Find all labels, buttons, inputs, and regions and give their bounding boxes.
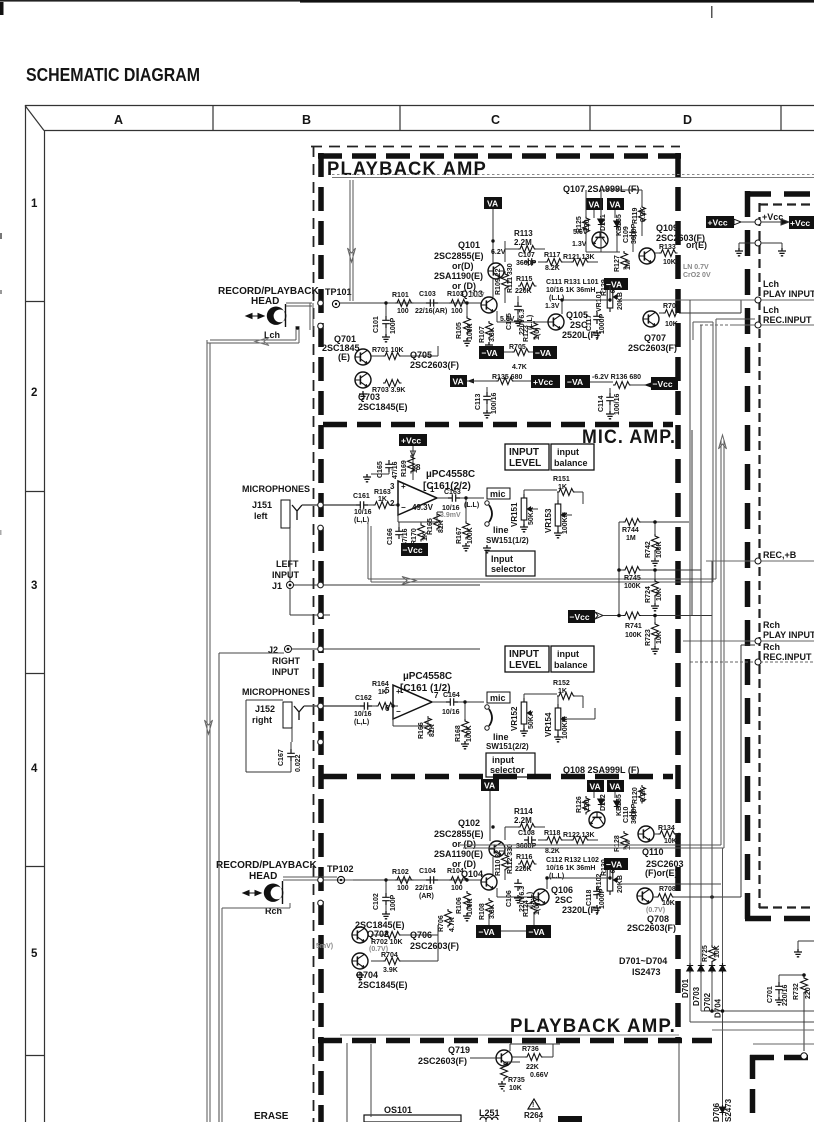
svg-text:mic: mic (490, 489, 506, 499)
-VA box bottom left (476, 925, 501, 938)
svg-text:10K: 10K (663, 259, 676, 266)
-VA box (Q108 bias) (604, 858, 628, 870)
-VA box (Q107 bias) (604, 278, 628, 290)
registration mark top-left (0, 2, 4, 15)
svg-text:R117: R117 (544, 252, 560, 259)
wires Q719 (470, 1044, 560, 1066)
arrow from -Vcc (595, 612, 603, 619)
svg-text:3.3K: 3.3K (489, 327, 496, 342)
svg-text:3: 3 (390, 482, 395, 491)
svg-text:3.9mV: 3.9mV (440, 512, 461, 519)
node Lch head wire crossing (318, 300, 324, 306)
svg-text:ERASE: ERASE (254, 1111, 289, 1122)
diode D704 (719, 963, 725, 973)
ruler row divider 2/3 (25, 491, 44, 493)
wire R701 row (371, 346, 438, 356)
svg-text:−Vcc: −Vcc (403, 545, 423, 555)
svg-text:R127: R127 (614, 255, 621, 272)
svg-text:R707: R707 (663, 303, 680, 310)
TP101 test point (332, 300, 339, 307)
registration tick top-right (711, 6, 713, 18)
PLAYBACK AMP dashed enclosure: bottom edge (318, 1038, 712, 1044)
svg-text:2: 2 (390, 499, 395, 508)
svg-text:VA: VA (589, 200, 600, 210)
svg-text:100: 100 (451, 308, 463, 315)
resistor R119 (639, 205, 646, 224)
svg-text:2SA1190(E): 2SA1190(E) (434, 849, 483, 859)
svg-text:R135 680: R135 680 (492, 374, 522, 381)
svg-text:10/16: 10/16 (442, 709, 460, 716)
wire Q708 output (653, 645, 755, 897)
svg-text:100KM: 100KM (562, 716, 569, 739)
svg-text:R736: R736 (522, 1046, 539, 1053)
svg-text:R167: R167 (456, 527, 463, 544)
ground small top right (794, 949, 802, 957)
svg-text:REC.INPUT: REC.INPUT (763, 652, 812, 662)
INPUT LEVEL box (505, 444, 549, 470)
arrow on output run (402, 577, 416, 585)
right inner dashed box: left edge (758, 203, 760, 908)
head Lch bias arrow (246, 314, 264, 319)
svg-text:S2473: S2473 (724, 1098, 733, 1122)
capacitor C118 (593, 887, 601, 899)
svg-text:8.2K: 8.2K (640, 787, 647, 802)
svg-text:LN 0.7V: LN 0.7V (683, 264, 709, 271)
svg-text:R166: R166 (418, 722, 425, 739)
svg-text:R151: R151 (553, 476, 570, 483)
svg-text:IS2473: IS2473 (632, 967, 661, 977)
transistor Q108 (589, 812, 605, 828)
svg-text:or(E): or(E) (686, 240, 707, 250)
ground under C114 (606, 411, 614, 419)
svg-text:-6.2V R136 680: -6.2V R136 680 (592, 374, 641, 381)
ruler row divider 4/5 (25, 866, 44, 868)
wire J152 to mic amp (292, 706, 330, 742)
arrow to VA (467, 379, 474, 384)
svg-text:INPUT: INPUT (509, 649, 539, 660)
wire Rch play input (683, 640, 814, 642)
svg-text:100/16: 100/16 (491, 392, 498, 414)
wire bottom connects (486, 1090, 540, 1122)
wire rows lower right (712, 1030, 814, 1044)
wire above bottom dashed (340, 1034, 679, 1036)
head Rch symbol (264, 884, 284, 902)
svg-text:line: line (493, 525, 509, 535)
svg-text:10K: 10K (656, 588, 663, 601)
arrow on incoming vertical (348, 248, 356, 262)
svg-text:KB265: KB265 (616, 794, 623, 816)
wires around VR152/VR154 (524, 694, 595, 719)
svg-text:J151: J151 (252, 500, 272, 510)
wire Q707 output (659, 300, 741, 313)
PLAYBACK AMP dashed enclosure: top edge (318, 153, 681, 159)
svg-text:4.7K: 4.7K (449, 917, 456, 932)
svg-text:Lch: Lch (763, 279, 779, 289)
switch SW151(1/2) contacts (485, 501, 489, 505)
svg-text:D703: D703 (692, 986, 701, 1006)
wire J1 row (294, 584, 480, 586)
diode D701 (687, 963, 693, 973)
svg-text:5.6V: 5.6V (500, 316, 515, 323)
-Vcc box (bias row) (651, 377, 678, 390)
ruler row divider 1/2 (25, 301, 44, 303)
capacitor C114 (606, 393, 614, 405)
svg-text:D: D (683, 113, 692, 127)
svg-text:220/16: 220/16 (782, 984, 789, 1006)
wire bias feed verticals (586, 190, 642, 252)
node mic1 gnd crossing (318, 525, 324, 531)
svg-text:−VA: −VA (479, 927, 495, 937)
svg-text:R704: R704 (381, 952, 398, 959)
J151 jack symbol (281, 500, 290, 528)
svg-text:−VA: −VA (482, 348, 498, 358)
svg-text:R134: R134 (658, 825, 675, 832)
svg-text:selector: selector (490, 765, 525, 775)
svg-text:20KB: 20KB (617, 292, 624, 310)
svg-text:C103: C103 (419, 291, 436, 298)
resistor R164 (376, 703, 395, 710)
svg-text:2SC2603(F): 2SC2603(F) (418, 1056, 467, 1066)
svg-text:R128: R128 (614, 835, 621, 852)
node Rch return crossing (318, 900, 324, 906)
capacitor C117 (593, 312, 601, 324)
-VA box bottom right (526, 925, 551, 938)
svg-text:1K: 1K (378, 496, 387, 503)
wire -VA to -Vcc (590, 382, 651, 385)
svg-text:SW151(1/2): SW151(1/2) (486, 536, 529, 545)
svg-text:8: 8 (416, 463, 421, 472)
svg-text:R735: R735 (508, 1077, 525, 1084)
resistor R152 (557, 693, 576, 700)
svg-text:input: input (492, 755, 514, 765)
svg-text:C161: C161 (353, 493, 370, 500)
svg-text:Q706: Q706 (410, 930, 432, 940)
VA supply box 3 (607, 198, 624, 210)
svg-text:R110 22: R110 22 (495, 850, 502, 876)
svg-text:C165: C165 (377, 461, 384, 478)
resistor R136 (613, 382, 632, 389)
svg-text:R732: R732 (793, 983, 800, 1000)
wire incoming double vertical (350, 180, 353, 301)
svg-text:−VA: −VA (606, 860, 622, 870)
wire Lch rec input (700, 324, 814, 326)
MIC AMP dashed enclosure: bottom edge (323, 774, 673, 780)
svg-text:R745: R745 (624, 575, 641, 582)
svg-text:TP102: TP102 (327, 864, 354, 874)
C167 capacitor (287, 749, 295, 761)
svg-text:82K: 82K (438, 520, 445, 533)
potentiometer VR102 (607, 865, 618, 895)
node Lch rec (755, 322, 761, 328)
svg-text:2SA1190(E): 2SA1190(E) (434, 271, 483, 281)
svg-text:100: 100 (397, 308, 409, 315)
svg-text:R741: R741 (625, 623, 642, 630)
svg-text:100P: 100P (390, 894, 397, 911)
bottom-right dashed box: top edge (750, 1055, 814, 1061)
-Vcc box mid right (568, 610, 595, 623)
svg-text:10/16: 10/16 (442, 505, 460, 512)
svg-text:100: 100 (451, 885, 463, 892)
svg-text:HEAD: HEAD (251, 296, 279, 307)
diode D702 (709, 963, 715, 973)
svg-text:R103: R103 (447, 291, 464, 298)
-Vcc box mic (401, 543, 428, 556)
resistor R118 (545, 837, 564, 844)
svg-text:8.2K: 8.2K (640, 207, 647, 222)
svg-text:INPUT: INPUT (272, 570, 300, 580)
svg-text:OS101: OS101 (384, 1105, 412, 1115)
svg-text:2SC2855(E): 2SC2855(E) (434, 829, 484, 839)
svg-text:3600P: 3600P (631, 223, 638, 244)
capacitor C102 (382, 893, 390, 905)
transistor Q704 (352, 953, 368, 969)
svg-text:Q719: Q719 (448, 1045, 470, 1055)
capacitor C113 (483, 392, 491, 404)
svg-text:3600P: 3600P (631, 803, 638, 824)
capacitor C161 (356, 501, 368, 509)
svg-text:1.3V: 1.3V (545, 303, 560, 310)
svg-text:VA: VA (590, 782, 601, 792)
+Vcc box right (789, 216, 814, 229)
svg-text:R116: R116 (516, 854, 532, 861)
svg-text:(L,L): (L,L) (354, 517, 369, 524)
bottom-right dashed box: left edge (750, 1055, 756, 1122)
resistor R126 (583, 796, 590, 815)
ruler column divider C/D (589, 105, 591, 130)
svg-text:49.3V: 49.3V (412, 503, 434, 512)
svg-text:R170: R170 (411, 528, 418, 545)
ground under R742 (651, 558, 659, 566)
VA supply box 2 (586, 198, 603, 210)
node Lch return crossing (318, 323, 324, 329)
svg-text:−: − (401, 503, 406, 512)
resistor R122 (571, 837, 590, 844)
svg-text:VR102: VR102 (596, 873, 603, 895)
arrow to -Vcc (644, 383, 651, 388)
svg-text:VR151: VR151 (510, 502, 519, 527)
svg-text:R120: R120 (632, 787, 639, 804)
ruler row divider 3/4 (25, 673, 44, 675)
resistor R114 (518, 824, 537, 831)
capacitor C106 electrolytic (514, 879, 522, 891)
capacitor C164 (446, 698, 458, 706)
ground under R724 (651, 603, 659, 611)
wire J1 stub down (290, 589, 330, 615)
node on bottom-right box edge (801, 1053, 807, 1059)
svg-text:mic: mic (490, 693, 506, 703)
svg-text:input: input (557, 649, 579, 659)
node J1 stub crossing (318, 612, 324, 618)
svg-text:100P: 100P (390, 317, 397, 334)
svg-text:R708: R708 (659, 886, 676, 893)
svg-text:D704: D704 (714, 998, 723, 1018)
wire mic2 input line (304, 705, 360, 707)
svg-text:2SC2603(F): 2SC2603(F) (628, 343, 677, 353)
+Vcc box (bias row) (531, 375, 560, 388)
svg-text:10K: 10K (714, 945, 721, 958)
node Rch rec (755, 659, 761, 665)
VA box b3 (607, 780, 624, 792)
wire Rch return (222, 903, 290, 1122)
svg-text:220: 220 (805, 987, 812, 999)
potentiometer VR153 (555, 500, 566, 530)
svg-text:Q105: Q105 (566, 310, 588, 320)
resistor R724 (652, 579, 659, 598)
svg-text:RECORD/PLAYBACK: RECORD/PLAYBACK (216, 860, 318, 871)
resistor R124 (531, 896, 538, 915)
svg-text:100/16: 100/16 (614, 393, 621, 415)
border ruler left inner line (44, 130, 46, 1122)
resistor R732 (801, 976, 808, 995)
capacitor C162 (360, 702, 372, 710)
svg-text:VA: VA (610, 200, 621, 210)
wire interstage row (505, 241, 598, 262)
right outer dashed box: top edge (745, 191, 814, 197)
svg-text:D102: D102 (600, 794, 607, 811)
resistor R725 (709, 945, 716, 964)
svg-text:(F)or(E): (F)or(E) (645, 868, 678, 878)
resistor R745 (623, 567, 642, 574)
svg-text:C106: C106 (506, 890, 513, 907)
potentiometer VR152 (521, 698, 532, 728)
svg-text:C102: C102 (373, 893, 380, 910)
svg-text:SCHEMATIC DIAGRAM: SCHEMATIC DIAGRAM (26, 64, 200, 85)
wire +Vcc to op-amp (411, 446, 416, 480)
resistor R742 (652, 534, 659, 553)
Rch output run double (460, 440, 724, 963)
wire main Rch signal row (353, 879, 482, 881)
wire VA to +Vcc (467, 380, 531, 382)
node mic1 crossing (318, 502, 324, 508)
svg-text:R102: R102 (392, 869, 409, 876)
ground under R107 (485, 342, 493, 350)
svg-text:R101: R101 (392, 292, 409, 299)
ground under C101 (382, 334, 390, 342)
head Lch symbol (267, 307, 287, 325)
svg-text:C701: C701 (767, 986, 774, 1003)
resistor R723 (652, 622, 659, 641)
svg-text:R169: R169 (401, 460, 408, 477)
svg-text:R152: R152 (553, 680, 570, 687)
wire to inverting input (368, 504, 398, 506)
svg-text:C: C (491, 113, 500, 127)
ground left of C165 (363, 474, 371, 482)
ground under R735 (498, 1081, 506, 1089)
edge pass-through nodes on dashed borders (318, 300, 324, 906)
svg-text:Input: Input (491, 554, 513, 564)
svg-text:C114: C114 (598, 396, 605, 412)
ground under C117 (593, 330, 601, 338)
wire R134 to edge (654, 833, 679, 835)
resistor R736 (525, 1054, 544, 1061)
svg-text:R119: R119 (632, 208, 639, 224)
bundle below diodes (690, 973, 814, 1122)
ground under VR151 (520, 524, 528, 532)
svg-text:(L,L): (L,L) (354, 719, 369, 726)
svg-text:C109: C109 (623, 226, 630, 243)
svg-text:R725: R725 (702, 945, 709, 962)
svg-text:INPUT: INPUT (272, 667, 300, 677)
svg-text:C110: C110 (623, 807, 630, 823)
svg-text:line: line (493, 732, 509, 742)
svg-text:R118: R118 (544, 830, 560, 837)
svg-text:(E): (E) (338, 352, 350, 362)
wire between -VA boxes (489, 914, 534, 931)
svg-text:100K: 100K (656, 541, 663, 558)
transistor Q110 (638, 826, 654, 842)
svg-text:47/16: 47/16 (392, 461, 399, 479)
svg-text:10/16 1K 36mH: 10/16 1K 36mH (546, 865, 595, 872)
transistor Q106 (533, 889, 549, 905)
svg-text:R108: R108 (479, 903, 486, 920)
svg-text:right: right (252, 715, 272, 725)
resistor R121 (571, 259, 590, 266)
svg-text:Q707: Q707 (644, 333, 666, 343)
svg-text:Lch: Lch (763, 305, 779, 315)
svg-text:3: 3 (31, 580, 37, 592)
svg-text:2: 2 (31, 387, 37, 399)
resistor R170 (418, 523, 425, 542)
node J2 crossing (318, 646, 324, 652)
node REC,+B (755, 558, 761, 564)
VA box b2 (587, 780, 604, 792)
wire mid row to bundle (620, 883, 721, 885)
svg-text:R122 13K: R122 13K (563, 832, 595, 839)
svg-text:0.022: 0.022 (295, 754, 302, 772)
diode KB265 (b) (614, 799, 620, 809)
transistor Q701 (355, 349, 371, 365)
svg-text:VA: VA (487, 199, 498, 209)
svg-text:B: B (302, 113, 311, 127)
PLAYBACK AMP thin outer dashed: top (311, 146, 680, 148)
svg-text:HEAD: HEAD (249, 871, 277, 882)
svg-text:R133: R133 (659, 244, 676, 251)
svg-text:MICROPHONES: MICROPHONES (242, 484, 310, 494)
transistor Q107 (592, 232, 608, 248)
wires around VR151/VR153 (524, 490, 583, 515)
resistor R169 (408, 455, 415, 474)
node mic2 crossing (318, 703, 324, 709)
svg-text:−Vcc: −Vcc (570, 612, 590, 622)
resistor R707 (663, 310, 682, 317)
-VA box right (533, 346, 557, 359)
diode D101 (598, 217, 604, 227)
border ruler left outer line (25, 105, 27, 1122)
svg-text:balance: balance (554, 660, 588, 670)
svg-text:R702 10K: R702 10K (371, 939, 403, 946)
svg-text:Q108 2SA999L (F): Q108 2SA999L (F) (563, 765, 639, 775)
diode D703 (698, 963, 704, 973)
svg-text:2SC1845(E): 2SC1845(E) (358, 980, 408, 990)
wire Q105 collector to VR101 (562, 286, 610, 314)
ground right of node (778, 248, 786, 256)
wire to switch (460, 498, 484, 521)
svg-text:1: 1 (430, 485, 435, 494)
resistor R735 (501, 1062, 508, 1081)
svg-text:10/16: 10/16 (354, 509, 372, 516)
right outer dashed box: left edge (745, 191, 751, 921)
svg-text:+: + (396, 687, 401, 696)
svg-text:220: 220 (584, 799, 591, 811)
svg-text:!: ! (532, 1102, 534, 1109)
svg-text:−VA: −VA (535, 348, 551, 358)
resistor R168 (462, 719, 469, 738)
svg-text:C166: C166 (387, 528, 394, 545)
svg-text:R104: R104 (447, 868, 464, 875)
transistor Q105 (548, 314, 564, 330)
svg-text:R113: R113 (514, 229, 533, 238)
junction dots main rows (384, 239, 611, 881)
